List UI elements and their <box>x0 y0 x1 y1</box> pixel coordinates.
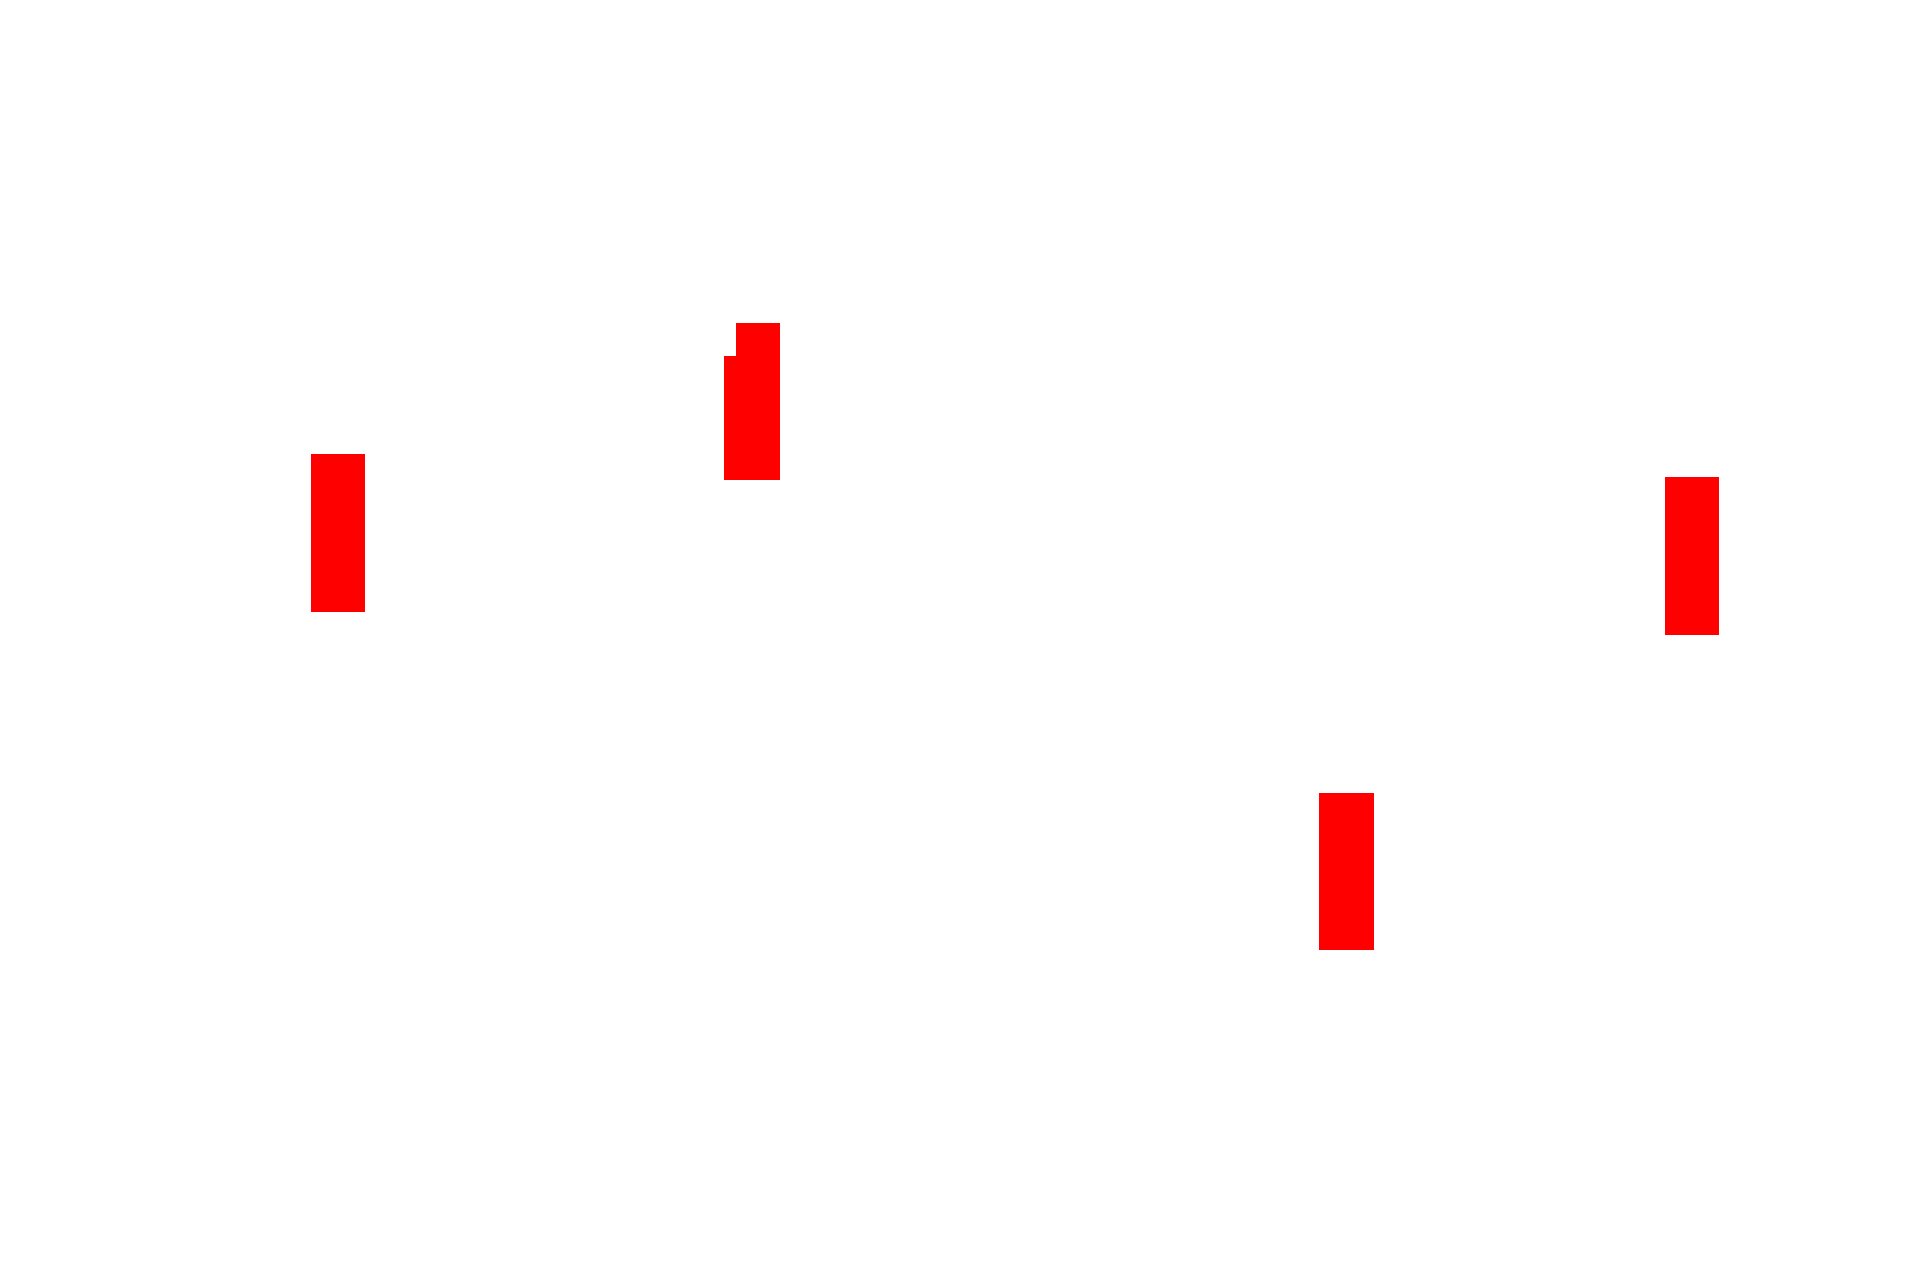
component highlight R2 (stepped red bar) <box>736 323 780 480</box>
component highlight R1 (red bar) <box>311 454 365 612</box>
component highlight R3 (red bar) <box>1665 477 1719 635</box>
component highlight R4 (red bar) <box>1319 793 1374 950</box>
